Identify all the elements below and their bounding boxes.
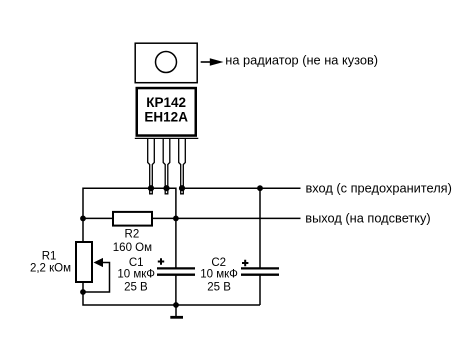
svg-text:вход (с предохранителя): вход (с предохранителя) xyxy=(306,181,452,196)
svg-text:C2: C2 xyxy=(211,257,226,269)
svg-text:2,2 кОм: 2,2 кОм xyxy=(30,263,71,275)
svg-text:R2: R2 xyxy=(125,229,140,241)
svg-text:R1: R1 xyxy=(42,251,57,263)
svg-text:10 мкФ: 10 мкФ xyxy=(200,269,238,281)
svg-text:КР142: КР142 xyxy=(146,95,186,110)
svg-text:25 В: 25 В xyxy=(124,281,148,293)
svg-text:ЕН12А: ЕН12А xyxy=(144,110,188,125)
svg-text:на радиатор (не на кузов): на радиатор (не на кузов) xyxy=(225,53,378,68)
svg-text:C1: C1 xyxy=(129,257,144,269)
svg-text:выход (на подсветку): выход (на подсветку) xyxy=(305,211,430,226)
svg-text:160 Ом: 160 Ом xyxy=(113,242,152,254)
svg-text:10 мкФ: 10 мкФ xyxy=(117,269,155,281)
svg-text:25 В: 25 В xyxy=(207,281,231,293)
